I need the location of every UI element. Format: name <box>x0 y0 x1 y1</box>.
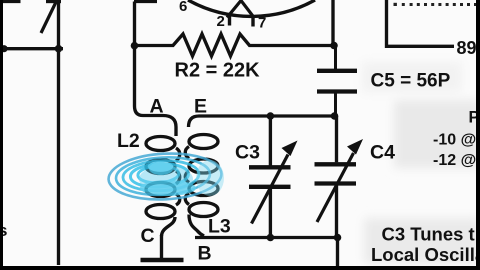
node C4 bottom <box>334 234 342 242</box>
tube V1 grid triangle <box>227 1 254 18</box>
ground wire from C <box>160 235 163 259</box>
svg-text:E: E <box>194 96 207 118</box>
transistor Q1 partial diagonal <box>41 2 56 33</box>
svg-text:C3 Tunes the: C3 Tunes the <box>382 224 480 245</box>
capacitor C4 <box>315 116 357 238</box>
svg-text:-10 @: -10 @ <box>433 132 476 149</box>
tube V1 pin 2 tick <box>228 14 231 26</box>
ground <box>141 258 184 263</box>
texts <box>179 0 266 32</box>
svg-text:R2 = 22K: R2 = 22K <box>175 60 261 82</box>
svg-text:C: C <box>141 225 155 247</box>
wire top tick left <box>3 0 21 3</box>
svg-text:6: 6 <box>179 0 187 15</box>
resistor R2 <box>135 34 335 56</box>
dotted line top right <box>394 3 477 6</box>
svg-text:2: 2 <box>217 13 225 30</box>
svg-text:A: A <box>150 96 164 118</box>
tube V1 pin 7 tick <box>251 15 254 27</box>
svg-text:L3: L3 <box>208 216 231 238</box>
svg-text:B: B <box>198 243 212 265</box>
wire left horizontal <box>0 47 63 50</box>
wire bottom rail B to C4 <box>195 238 338 267</box>
junction node dots <box>0 42 341 242</box>
wire top tick at Q1 <box>46 0 61 3</box>
capacitor C3 <box>249 116 291 238</box>
svg-text:C3: C3 <box>235 142 260 164</box>
node R2 left <box>131 42 139 50</box>
tube V1 envelope arc <box>188 0 315 16</box>
wire node-E rail <box>189 116 337 127</box>
svg-text:C5 = 56P: C5 = 56P <box>371 71 451 92</box>
wire vertical Q1 collector <box>57 0 60 265</box>
capacitor C5 <box>317 46 357 117</box>
inductor L3 <box>185 135 218 237</box>
wire left rail vertical <box>135 2 164 116</box>
capacitor C4 arrow <box>317 139 363 222</box>
inductor L2 <box>146 116 180 237</box>
annotation spiral (cyan) <box>107 151 224 202</box>
node C5 bottom / C4 top <box>331 112 339 120</box>
svg-text:-12 @: -12 @ <box>433 152 476 169</box>
node C3 top <box>267 112 275 120</box>
capacitor C3 arrow <box>252 141 298 224</box>
svg-text:Local Oscillator: Local Oscillator <box>371 244 480 265</box>
node at left wire <box>0 45 7 52</box>
node at Q1 emitter join <box>55 45 63 53</box>
svg-text:L2: L2 <box>117 130 140 152</box>
wire tube anode to C5 <box>331 0 334 46</box>
svg-text:7: 7 <box>258 15 266 32</box>
node C3 bottom <box>267 234 275 242</box>
svg-text:C4: C4 <box>370 142 395 164</box>
frame bars <box>0 0 3 270</box>
wire oscillator top-right L <box>387 0 455 46</box>
wire top tick at left rail <box>134 0 157 3</box>
node R2 right / C5 top <box>330 42 338 50</box>
